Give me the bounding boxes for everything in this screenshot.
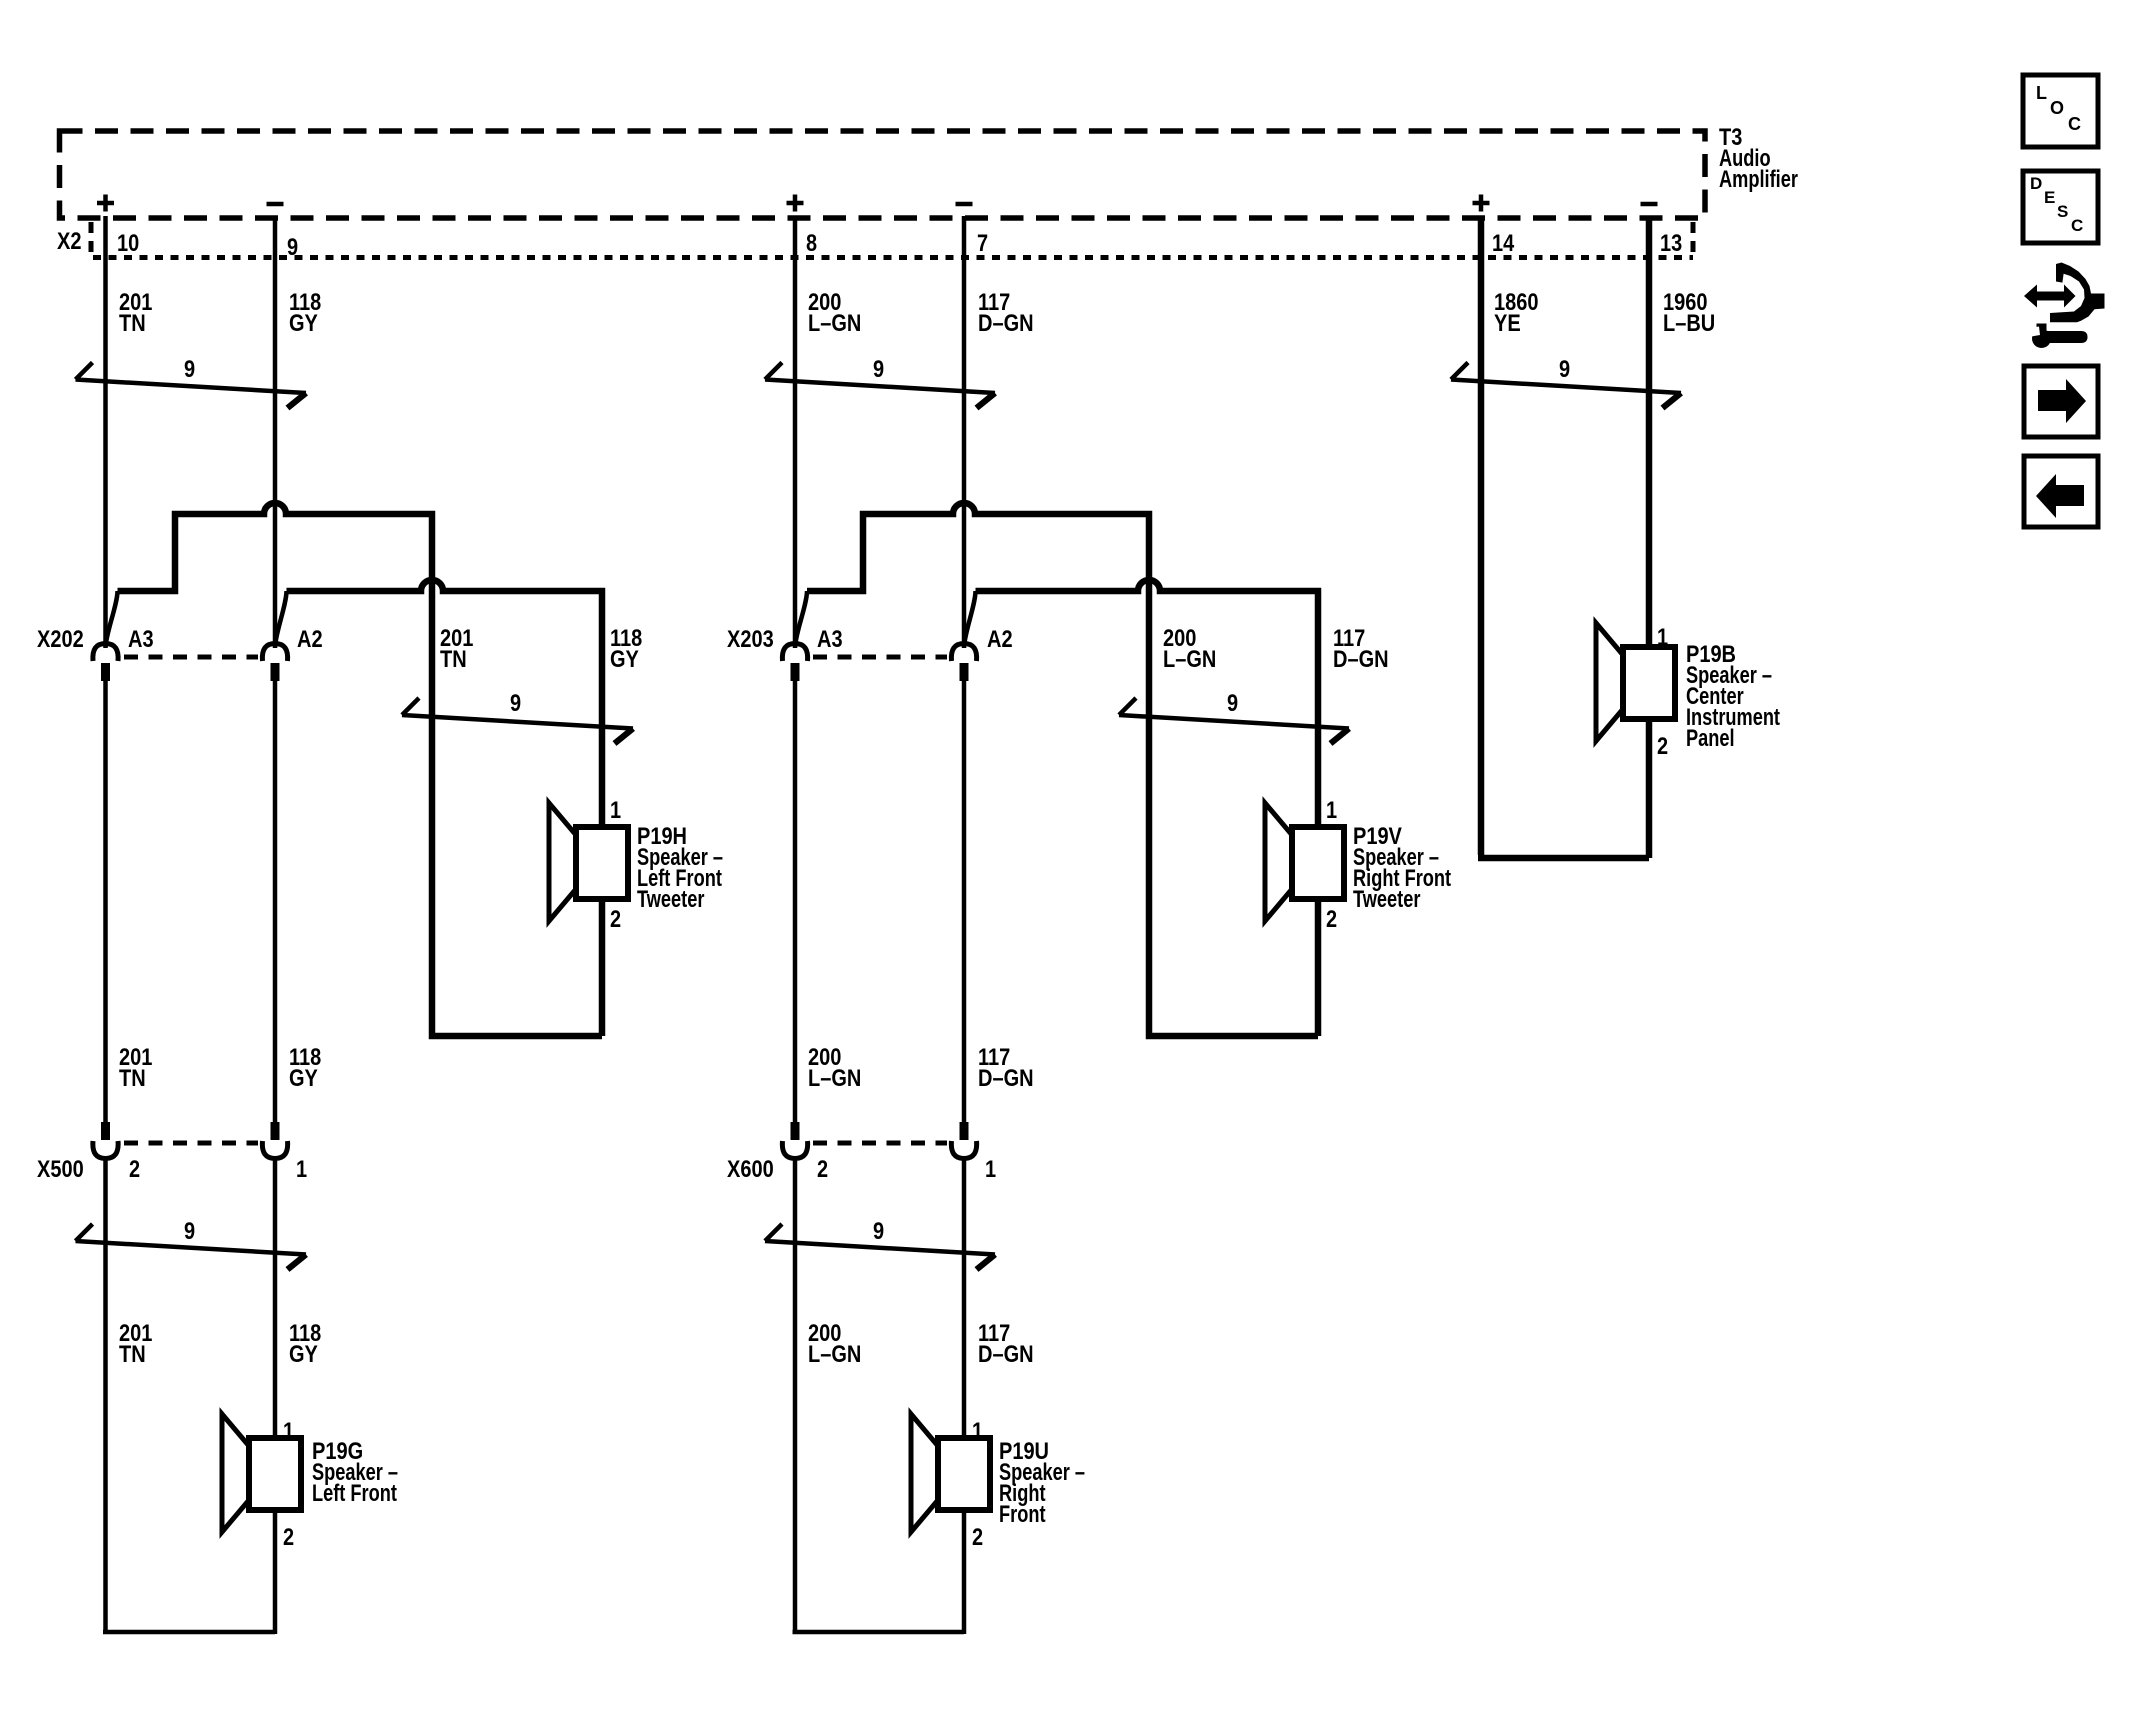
svg-text:14: 14 — [1492, 230, 1515, 257]
svg-text:L–BU: L–BU — [1663, 310, 1715, 337]
svg-text:9: 9 — [1559, 356, 1570, 383]
speaker P19G symbol — [222, 1414, 301, 1532]
svg-text:L: L — [2036, 83, 2047, 103]
icon schematic navigation (double arrow with curved arrow and wrench) — [2024, 263, 2105, 349]
svg-text:C: C — [2071, 216, 2083, 235]
svg-text:2: 2 — [972, 1524, 983, 1551]
wire label 118 GY above X500 — [289, 1044, 321, 1092]
svg-text:TN: TN — [440, 646, 467, 673]
svg-text:D–GN: D–GN — [1333, 646, 1389, 673]
svg-text:X600: X600 — [727, 1156, 774, 1183]
wire 1860 YE from amplifier pin 14 to speaker P19B — [1478, 216, 1649, 858]
wire label 200 L-GN below X600 — [808, 1320, 861, 1368]
svg-text:A2: A2 — [297, 626, 323, 653]
wire label 117 D-GN below pin 7 — [978, 289, 1034, 337]
connector X203 pin A3 symbol — [782, 644, 807, 682]
amplifier label T3 Audio Amplifier — [1719, 124, 1798, 193]
wire label 201 TN above X500 — [119, 1044, 152, 1092]
d-green branch wire 117 from X203 A2 to tweeter P19V pin 2 side — [976, 580, 1319, 826]
S-curve wire into X202 pin A2 — [275, 591, 287, 648]
twisted pair symbol wires 201/118 upper — [76, 363, 307, 409]
speaker P19U symbol — [911, 1414, 990, 1532]
connector X600 dashed mating line — [813, 1141, 947, 1146]
polarity label - (pin 9) — [267, 202, 284, 207]
svg-text:1: 1 — [1657, 624, 1668, 651]
right tweeter loop right wire lower segment 117 D-GN — [1315, 900, 1322, 1036]
svg-text:S: S — [2057, 202, 2068, 221]
svg-text:E: E — [2044, 188, 2055, 207]
wire label 1860 YE below pin 14 — [1494, 289, 1539, 337]
svg-text:X202: X202 — [37, 626, 84, 653]
svg-text:A3: A3 — [128, 626, 154, 653]
twisted pair symbol tweeter P19H pair — [402, 698, 633, 744]
speaker P19G name label — [312, 1438, 398, 1507]
svg-text:TN: TN — [119, 1065, 146, 1092]
wire 1960 L-BU from amplifier pin 13 to speaker P19B — [1646, 216, 1653, 858]
svg-text:7: 7 — [977, 230, 988, 257]
svg-text:2: 2 — [1657, 733, 1668, 760]
svg-text:Tweeter: Tweeter — [637, 886, 704, 913]
wire label 117 D-GN above X600 — [978, 1044, 1034, 1092]
svg-text:2: 2 — [1326, 906, 1337, 933]
polarity label + (pin 8) — [787, 195, 804, 212]
icon forward arrow button — [2024, 366, 2098, 437]
wire 117 D-GN from amplifier pin 7 to connector X203 pin A2 — [962, 216, 967, 647]
tan branch wire 201 TN from X202 A3 to tweeter P19H pin 1 side — [118, 503, 603, 1036]
svg-text:1: 1 — [296, 1156, 307, 1183]
svg-text:GY: GY — [289, 1065, 318, 1092]
svg-text:1: 1 — [610, 797, 621, 824]
tweeter loop wire label 200 L-GN — [1163, 625, 1216, 673]
wire 117 D-GN X600 to speaker P19U — [962, 1158, 967, 1634]
svg-text:C: C — [2068, 114, 2081, 134]
svg-text:YE: YE — [1494, 310, 1521, 337]
wire label 200 L-GN below pin 8 — [808, 289, 861, 337]
svg-text:9: 9 — [184, 356, 195, 383]
S-curve wire into X203 pin A3 — [795, 591, 807, 648]
twisted pair symbol above X600 — [765, 1224, 995, 1270]
svg-text:TN: TN — [119, 310, 146, 337]
wire label 118 GY below pin 9 — [289, 289, 321, 337]
svg-text:D–GN: D–GN — [978, 310, 1034, 337]
svg-text:D: D — [2030, 174, 2042, 193]
tweeter loop wire label 118 GY — [610, 625, 642, 673]
svg-text:8: 8 — [806, 230, 817, 257]
svg-text:9: 9 — [873, 1218, 884, 1245]
connector X2 face dotted line — [93, 255, 1693, 260]
polarity label - (pin 13) — [1641, 202, 1658, 207]
svg-text:A3: A3 — [817, 626, 843, 653]
svg-text:2: 2 — [817, 1156, 828, 1183]
polarity label + (pin 14) — [1473, 195, 1490, 212]
wire 201 TN X500 to speaker P19G loop — [103, 1158, 275, 1632]
svg-text:L–GN: L–GN — [1163, 646, 1216, 673]
wire label 117 D-GN below X600 — [978, 1320, 1034, 1368]
svg-text:1: 1 — [1326, 797, 1337, 824]
svg-text:Amplifier: Amplifier — [1719, 166, 1798, 193]
svg-text:1: 1 — [283, 1418, 294, 1445]
connector X500 pin 2 symbol — [93, 1122, 118, 1159]
polarity label - (pin 7) — [956, 202, 973, 207]
icon LOC button — [2023, 75, 2098, 147]
connector X500 dashed mating line — [124, 1141, 258, 1146]
twisted pair symbol wires 200/117 upper — [765, 363, 995, 409]
wire 200 L-GN X600 to speaker P19U loop — [793, 1158, 965, 1632]
S-curve wire into X202 pin A3 — [106, 591, 118, 648]
svg-text:9: 9 — [184, 1218, 195, 1245]
wire label 201 TN below pin 10 — [119, 289, 152, 337]
connector X500 pin 1 symbol — [262, 1122, 287, 1159]
wire 201 TN from amplifier pin 10 to connector X202 pin A3 — [103, 216, 108, 647]
wire 118 GY segment X202 to X500 — [273, 681, 278, 1122]
svg-text:Tweeter: Tweeter — [1353, 886, 1420, 913]
wire label 1960 L-BU below pin 13 — [1663, 289, 1715, 337]
wire 200 L-GN segment X203 to X600 — [793, 681, 798, 1122]
wire label 200 L-GN above X600 — [808, 1044, 861, 1092]
svg-text:9: 9 — [287, 234, 298, 261]
tweeter loop wire label 201 TN — [440, 625, 473, 673]
svg-text:1: 1 — [972, 1418, 983, 1445]
tweeter loop right wire lower segment 118 GY — [599, 900, 606, 1036]
svg-text:D–GN: D–GN — [978, 1065, 1034, 1092]
connector X202 pin A3 symbol — [93, 644, 118, 682]
tweeter loop wire label 117 D-GN — [1333, 625, 1389, 673]
wire 201 TN segment X202 to X500 — [103, 681, 108, 1122]
l-green branch wire 200 from X203 A3 to tweeter P19V pin 1 side — [807, 503, 1318, 1036]
wire 117 D-GN segment X203 to X600 — [962, 681, 967, 1122]
connector X203 dashed mating line — [813, 655, 947, 660]
svg-text:Left Front: Left Front — [312, 1480, 397, 1507]
svg-text:GY: GY — [289, 1341, 318, 1368]
connector X600 pin 2 symbol — [782, 1122, 807, 1159]
gray branch wire 118 GY from X202 A2 to tweeter P19H pin 2 side — [287, 580, 603, 826]
svg-text:L–GN: L–GN — [808, 1065, 861, 1092]
wire label 201 TN below X500 — [119, 1320, 152, 1368]
connector X203 pin A2 symbol — [951, 644, 976, 682]
connector X2 left dashed edge — [89, 222, 94, 258]
twisted pair symbol above X500 — [76, 1224, 307, 1270]
svg-text:2: 2 — [283, 1524, 294, 1551]
twisted pair symbol wires 1860/1960 — [1451, 363, 1681, 409]
svg-text:X500: X500 — [37, 1156, 84, 1183]
svg-text:2: 2 — [610, 906, 621, 933]
connector X2 right dashed edge — [1691, 222, 1696, 258]
svg-text:9: 9 — [873, 356, 884, 383]
svg-text:1: 1 — [985, 1156, 996, 1183]
svg-text:9: 9 — [510, 690, 521, 717]
twisted pair symbol tweeter P19V pair — [1119, 698, 1349, 744]
svg-text:L–GN: L–GN — [808, 310, 861, 337]
wire label 118 GY below X500 — [289, 1320, 321, 1368]
audio amplifier T3 dashed box — [60, 131, 1706, 218]
svg-text:O: O — [2050, 98, 2064, 118]
wire 118 GY X500 to speaker P19G — [273, 1158, 278, 1634]
wire 118 GY from amplifier pin 9 to connector X202 pin A2 — [273, 216, 278, 647]
svg-text:X2: X2 — [57, 228, 82, 255]
svg-text:Front: Front — [999, 1501, 1046, 1528]
svg-text:TN: TN — [119, 1341, 146, 1368]
speaker P19B symbol — [1596, 623, 1675, 741]
svg-text:2: 2 — [129, 1156, 140, 1183]
svg-text:L–GN: L–GN — [808, 1341, 861, 1368]
polarity label + (pin 10) — [97, 195, 114, 212]
icon DESC button — [2023, 171, 2098, 243]
speaker P19U name label — [999, 1438, 1085, 1528]
svg-text:9: 9 — [1227, 690, 1238, 717]
speaker P19V name label — [1353, 823, 1451, 913]
icon back arrow button — [2024, 456, 2098, 527]
connector X202 dashed mating line — [124, 655, 258, 660]
svg-text:10: 10 — [117, 230, 139, 257]
svg-text:Panel: Panel — [1686, 725, 1735, 752]
S-curve wire into X203 pin A2 — [964, 591, 976, 648]
svg-text:A2: A2 — [987, 626, 1013, 653]
speaker P19V symbol — [1265, 803, 1344, 921]
speaker P19B name label — [1686, 641, 1780, 752]
connector X202 pin A2 symbol — [262, 644, 287, 682]
wire 200 L-GN from amplifier pin 8 to connector X203 pin A3 — [793, 216, 798, 647]
svg-text:GY: GY — [610, 646, 639, 673]
svg-text:GY: GY — [289, 310, 318, 337]
connector X600 pin 1 symbol — [951, 1122, 976, 1159]
svg-text:X203: X203 — [727, 626, 774, 653]
speaker P19H symbol — [549, 803, 628, 921]
svg-text:13: 13 — [1660, 230, 1682, 257]
svg-text:D–GN: D–GN — [978, 1341, 1034, 1368]
speaker P19H name label — [637, 823, 723, 913]
